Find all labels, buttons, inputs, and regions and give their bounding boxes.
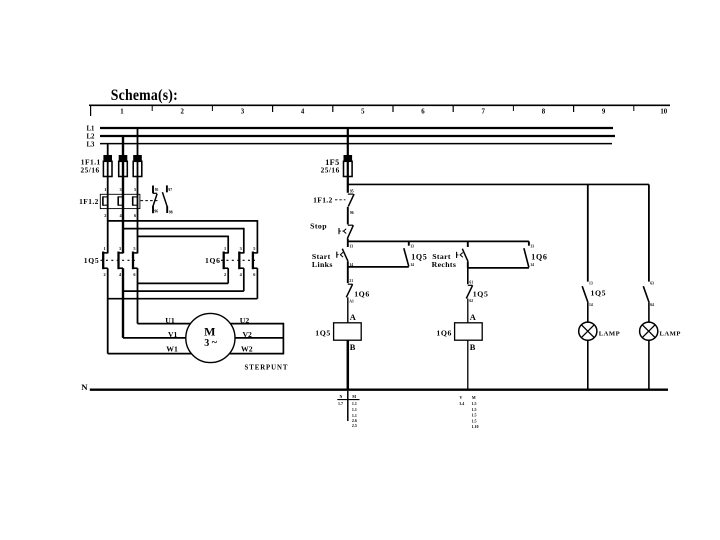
svg-text:M: M — [352, 394, 356, 399]
svg-text:2: 2 — [104, 272, 106, 277]
svg-text:LAMP: LAMP — [599, 330, 620, 337]
svg-text:4: 4 — [301, 109, 305, 116]
svg-text:1.5: 1.5 — [472, 401, 477, 406]
svg-text:3.4: 3.4 — [459, 401, 464, 406]
svg-text:1: 1 — [224, 246, 226, 251]
svg-text:U2: U2 — [240, 316, 250, 325]
svg-text:A: A — [470, 313, 476, 322]
svg-text:14: 14 — [530, 263, 534, 267]
svg-text:1Q6: 1Q6 — [436, 329, 452, 338]
svg-text:3: 3 — [240, 246, 242, 251]
svg-text:5: 5 — [253, 246, 255, 251]
svg-text:2: 2 — [224, 272, 226, 277]
svg-text:1.5: 1.5 — [472, 418, 477, 423]
svg-text:7: 7 — [481, 109, 485, 116]
svg-text:A: A — [350, 313, 356, 322]
svg-text:3: 3 — [204, 338, 209, 349]
svg-text:1Q5: 1Q5 — [473, 290, 489, 299]
svg-text:A1: A1 — [349, 300, 354, 304]
svg-text:1.5: 1.5 — [472, 407, 477, 412]
svg-text:V1: V1 — [168, 330, 178, 339]
svg-text:W2: W2 — [241, 345, 253, 354]
svg-text:2: 2 — [104, 213, 106, 218]
svg-text:B: B — [350, 343, 356, 352]
svg-text:N: N — [340, 394, 343, 399]
svg-text:1Q6: 1Q6 — [205, 256, 221, 265]
svg-text:1.5: 1.5 — [472, 413, 477, 418]
svg-text:13: 13 — [589, 281, 593, 285]
svg-text:97: 97 — [168, 188, 172, 192]
svg-text:Schema(s):: Schema(s): — [111, 87, 178, 104]
svg-text:61: 61 — [469, 280, 473, 284]
svg-text:3: 3 — [119, 246, 121, 251]
svg-text:L2: L2 — [87, 134, 96, 141]
svg-text:14: 14 — [589, 303, 593, 307]
svg-text:1Q5: 1Q5 — [591, 289, 607, 298]
svg-text:13: 13 — [530, 245, 534, 249]
svg-text:1: 1 — [104, 187, 106, 192]
svg-text:1Q5: 1Q5 — [411, 252, 427, 261]
svg-text:V2: V2 — [243, 330, 253, 339]
svg-text:1.7: 1.7 — [338, 401, 343, 406]
svg-text:W1: W1 — [166, 344, 178, 353]
svg-text:14: 14 — [410, 263, 414, 267]
svg-text:62: 62 — [469, 299, 473, 303]
svg-text:1.10: 1.10 — [472, 424, 479, 429]
svg-text:L3: L3 — [87, 141, 96, 148]
svg-text:95: 95 — [155, 188, 159, 192]
svg-text:1Q5: 1Q5 — [84, 256, 100, 265]
svg-text:5: 5 — [133, 246, 135, 251]
svg-text:1: 1 — [104, 246, 106, 251]
svg-text:M: M — [204, 325, 215, 339]
svg-text:13: 13 — [349, 244, 353, 248]
svg-text:LAMP: LAMP — [660, 330, 681, 337]
svg-text:95: 95 — [350, 189, 354, 193]
svg-text:5: 5 — [361, 109, 365, 116]
svg-text:8: 8 — [542, 109, 546, 116]
svg-text:V: V — [460, 395, 463, 400]
svg-text:98: 98 — [169, 210, 173, 214]
svg-text:1F1.2: 1F1.2 — [79, 197, 99, 206]
svg-text:5: 5 — [134, 187, 136, 192]
svg-text:25/16: 25/16 — [321, 166, 340, 175]
svg-text:21: 21 — [349, 279, 353, 283]
svg-text:U1: U1 — [165, 316, 175, 325]
svg-text:Links: Links — [312, 260, 333, 269]
svg-text:63: 63 — [650, 281, 654, 285]
svg-text:1: 1 — [120, 109, 124, 116]
svg-text:25/16: 25/16 — [81, 166, 100, 175]
svg-text:1Q6: 1Q6 — [354, 289, 370, 298]
svg-text:M: M — [472, 395, 476, 400]
svg-text:9: 9 — [602, 109, 606, 116]
svg-text:Stop: Stop — [310, 222, 327, 231]
svg-text:1Q6: 1Q6 — [531, 253, 547, 262]
svg-text:1.1: 1.1 — [352, 407, 357, 412]
svg-text:96: 96 — [154, 209, 158, 213]
svg-text:~: ~ — [212, 337, 218, 348]
svg-text:1F1.2: 1F1.2 — [313, 196, 332, 205]
svg-text:64: 64 — [650, 303, 654, 307]
svg-text:96: 96 — [350, 211, 354, 215]
svg-text:6: 6 — [421, 109, 425, 116]
svg-text:L1: L1 — [87, 126, 96, 133]
svg-text:B: B — [470, 343, 476, 352]
svg-text:1Q5: 1Q5 — [315, 329, 331, 338]
svg-text:Rechts: Rechts — [432, 260, 457, 269]
svg-text:1.1: 1.1 — [352, 401, 357, 406]
svg-text:13: 13 — [410, 245, 414, 249]
svg-text:3: 3 — [241, 109, 245, 116]
svg-text:10: 10 — [660, 109, 667, 116]
svg-text:14: 14 — [349, 263, 353, 267]
svg-text:3: 3 — [120, 187, 122, 192]
svg-text:2.5: 2.5 — [352, 423, 357, 428]
svg-text:2: 2 — [180, 109, 184, 116]
svg-text:N: N — [81, 382, 88, 392]
svg-text:STERPUNT: STERPUNT — [245, 364, 289, 371]
